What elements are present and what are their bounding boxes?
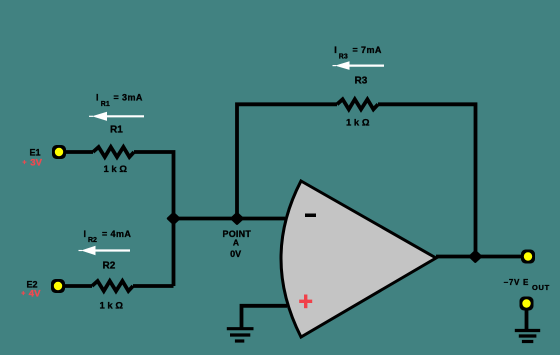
svg-text:1 k Ω: 1 k Ω [104, 164, 128, 175]
terminal ground reference [520, 297, 534, 311]
current arrow I R2 [79, 246, 131, 255]
node junction (R1/R2 summing bus) [168, 213, 179, 223]
ground (non-inverting input) [227, 329, 254, 341]
wire E1 to R1 [66, 150, 93, 154]
wire R3 right, down to output node [378, 104, 476, 256]
svg-text:R3: R3 [339, 54, 348, 61]
svg-text:+: + [21, 290, 25, 297]
resistor R2 [92, 281, 133, 291]
ground (output reference) [515, 331, 540, 342]
svg-text:I: I [96, 93, 99, 103]
svg-text:OUT: OUT [532, 283, 550, 292]
label I R2 = 4mA [84, 229, 132, 244]
svg-text:R1: R1 [110, 125, 123, 136]
svg-text:R2: R2 [103, 261, 116, 272]
svg-text:I: I [84, 229, 87, 239]
svg-text:R3: R3 [355, 76, 368, 87]
svg-text:−7V E: −7V E [504, 278, 530, 287]
label + 3V (red) [22, 158, 42, 169]
wire R2 to vertical bus [133, 284, 174, 288]
svg-text:= 4mA: = 4mA [102, 229, 131, 239]
label POINT A 0V [223, 229, 252, 259]
svg-text:4V: 4V [29, 289, 41, 300]
svg-text:+: + [22, 160, 26, 167]
current arrow I R3 [333, 61, 385, 70]
terminal E OUT [521, 250, 535, 264]
terminal E1 [52, 145, 66, 159]
current arrow I R1 [89, 112, 144, 121]
wire op-amp output to terminal [436, 255, 521, 259]
op-amp U1 [281, 181, 436, 337]
svg-text:1 k Ω: 1 k Ω [100, 301, 124, 312]
op-amp non-inverting input plus sign (red) [299, 295, 312, 309]
svg-text:1 k Ω: 1 k Ω [346, 118, 370, 129]
svg-text:A: A [233, 237, 239, 247]
label I R3 = 7mA [334, 45, 382, 61]
svg-text:R2: R2 [88, 237, 97, 244]
svg-text:R1: R1 [101, 101, 110, 108]
label + 4V (red) [21, 289, 41, 300]
label -7V E OUT [504, 278, 550, 292]
node output junction [470, 251, 481, 261]
svg-text:E1: E1 [30, 147, 41, 157]
resistor R1 [93, 147, 134, 157]
wire op-amp non-inverting input to ground [242, 306, 288, 328]
svg-text:0V: 0V [230, 249, 241, 259]
wire terminal to right ground [525, 310, 529, 329]
wire summing node to op-amp inverting input [174, 217, 286, 221]
terminal E2 [51, 279, 65, 293]
svg-text:I: I [334, 45, 337, 55]
wire E2 to R2 [65, 284, 92, 288]
wire R1 to node, vertical bus down to R2 [134, 152, 174, 286]
svg-text:3V: 3V [30, 158, 42, 169]
node POINT A junction [232, 213, 243, 223]
op-amp inverting input minus sign [305, 214, 316, 218]
svg-text:= 3mA: = 3mA [114, 93, 143, 103]
resistor R3 [337, 99, 378, 109]
wire POINT A up to feedback, left segment of feedback loop [237, 104, 337, 218]
svg-text:= 7mA: = 7mA [353, 45, 382, 55]
label I R1 = 3mA [96, 93, 143, 109]
